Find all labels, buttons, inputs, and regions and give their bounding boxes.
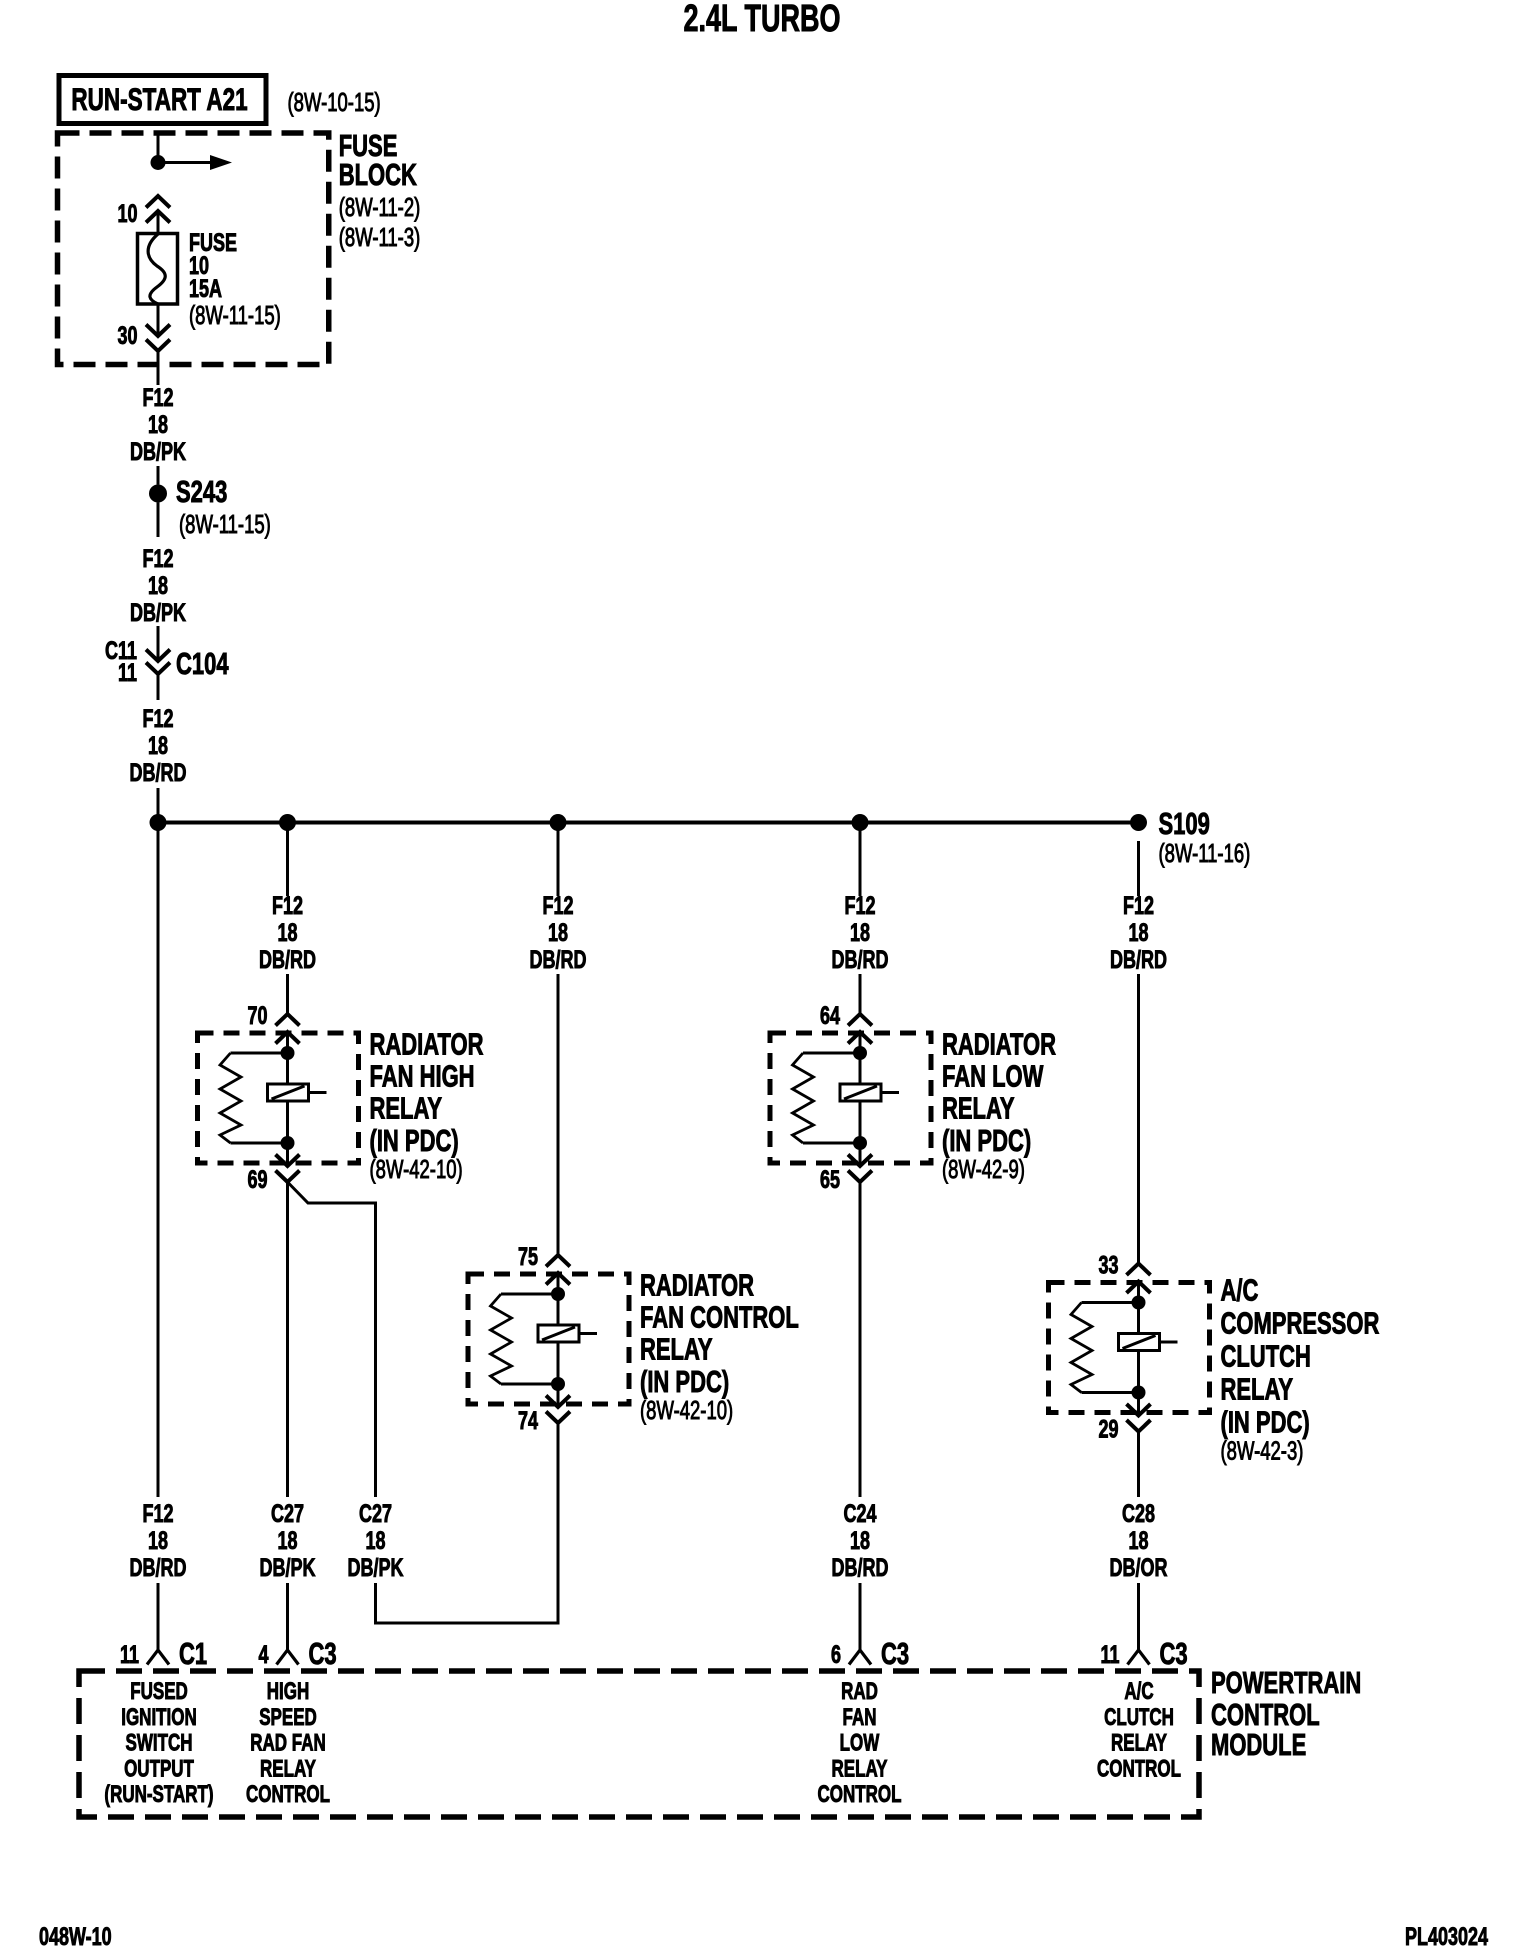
svg-text:64: 64	[820, 1001, 841, 1030]
junction	[551, 1287, 565, 1301]
wire	[1137, 841, 1140, 896]
svg-text:18: 18	[148, 731, 168, 760]
svg-text:70: 70	[247, 1001, 267, 1030]
wire C24 to PCM pin 6	[859, 1182, 862, 1497]
svg-text:SWITCH: SWITCH	[125, 1730, 192, 1756]
resistor (coil suppression)	[231, 1052, 288, 1055]
svg-text:DB/RD: DB/RD	[259, 945, 316, 974]
PCM pin 11 C1	[157, 1583, 160, 1650]
wire	[557, 823, 560, 897]
junction	[852, 814, 869, 831]
svg-text:(IN PDC): (IN PDC)	[370, 1123, 459, 1158]
svg-text:F12: F12	[143, 1499, 174, 1528]
svg-text:18: 18	[850, 1526, 870, 1555]
wire C28 to PCM pin 11	[1137, 1432, 1140, 1498]
wire splice bus S109	[158, 821, 1139, 825]
svg-text:75: 75	[518, 1242, 538, 1271]
svg-text:FUSED: FUSED	[130, 1678, 188, 1704]
svg-text:CONTROL: CONTROL	[246, 1781, 330, 1807]
svg-text:C3: C3	[1160, 1636, 1188, 1671]
svg-text:COMPRESSOR: COMPRESSOR	[1221, 1306, 1380, 1341]
relay coil	[1137, 1303, 1140, 1334]
relay K2 RADIATOR FAN CONTROL RELAY	[468, 1242, 799, 1435]
svg-text:DB/PK: DB/PK	[348, 1553, 404, 1582]
svg-text:74: 74	[518, 1406, 539, 1435]
svg-text:DB/RD: DB/RD	[130, 1553, 187, 1582]
junction	[1132, 1386, 1146, 1400]
svg-text:BLOCK: BLOCK	[339, 157, 418, 192]
svg-text:65: 65	[820, 1165, 840, 1194]
svg-text:FAN: FAN	[843, 1704, 877, 1730]
svg-text:(RUN-START): (RUN-START)	[104, 1781, 213, 1807]
wire	[157, 503, 160, 538]
svg-text:10: 10	[117, 199, 137, 228]
pin 74 connector	[557, 1384, 560, 1407]
relay coil	[557, 1294, 560, 1325]
relay boundary (dashed)	[198, 1033, 359, 1163]
connector C104 pin 11	[157, 626, 160, 661]
svg-text:POWERTRAIN: POWERTRAIN	[1211, 1665, 1361, 1700]
svg-text:DB/PK: DB/PK	[130, 437, 186, 466]
relay coil	[859, 1053, 862, 1084]
PCM pin 6 C3	[859, 1583, 862, 1650]
svg-text:(IN PDC): (IN PDC)	[640, 1364, 729, 1399]
svg-text:4: 4	[258, 1640, 269, 1669]
wire	[286, 974, 289, 1014]
svg-text:RELAY: RELAY	[1221, 1372, 1294, 1407]
wire down to splice bus	[157, 788, 160, 823]
svg-text:DB/RD: DB/RD	[832, 945, 889, 974]
svg-text:(8W-11-3): (8W-11-3)	[339, 223, 421, 252]
fuse block boundary	[58, 133, 329, 365]
svg-text:RELAY: RELAY	[942, 1091, 1015, 1126]
svg-text:33: 33	[1098, 1250, 1118, 1279]
svg-text:HIGH: HIGH	[267, 1678, 309, 1704]
wire	[859, 974, 862, 1014]
svg-text:18: 18	[148, 1526, 168, 1555]
svg-text:C28: C28	[1122, 1499, 1155, 1528]
PCM pin 4 C3	[286, 1583, 289, 1650]
wire	[1137, 974, 1140, 1263]
svg-text:PL403024: PL403024	[1405, 1922, 1489, 1951]
svg-text:30: 30	[117, 321, 137, 350]
svg-text:FAN LOW: FAN LOW	[942, 1059, 1044, 1094]
svg-text:(8W-11-15): (8W-11-15)	[179, 510, 271, 539]
svg-text:CLUTCH: CLUTCH	[1104, 1704, 1174, 1730]
junction	[279, 814, 296, 831]
svg-text:18: 18	[277, 918, 297, 947]
junction	[551, 1377, 565, 1391]
junction	[853, 1046, 867, 1060]
wire F12 to PCM pin 11 C1	[157, 823, 160, 1498]
wire	[859, 823, 862, 897]
svg-text:11: 11	[1100, 1640, 1119, 1669]
junction	[281, 1136, 295, 1150]
svg-text:18: 18	[365, 1526, 385, 1555]
relay boundary (dashed)	[468, 1274, 629, 1404]
module U1 POWERTRAIN CONTROL MODULE	[79, 1671, 1199, 1817]
svg-text:RADIATOR: RADIATOR	[942, 1027, 1056, 1062]
wire	[157, 466, 160, 485]
wire	[557, 974, 560, 1255]
svg-text:RUN-START A21: RUN-START A21	[71, 81, 247, 117]
svg-text:FAN HIGH: FAN HIGH	[370, 1059, 475, 1094]
svg-text:C27: C27	[359, 1499, 392, 1528]
svg-text:OUTPUT: OUTPUT	[124, 1756, 194, 1782]
wire from relay K2 pin 74	[557, 1423, 560, 1625]
relay K3 RADIATOR FAN LOW RELAY	[770, 1001, 1056, 1194]
resistor (coil suppression)	[501, 1293, 558, 1296]
svg-text:6: 6	[831, 1640, 841, 1669]
junction	[853, 1136, 867, 1150]
junction	[1132, 1296, 1146, 1310]
svg-text:RAD FAN: RAD FAN	[250, 1730, 326, 1756]
relay coil	[286, 1053, 289, 1084]
svg-text:(8W-42-9): (8W-42-9)	[942, 1155, 1025, 1184]
junction	[550, 814, 567, 831]
svg-text:SPEED: SPEED	[259, 1704, 317, 1730]
fuse 10 15A	[138, 234, 178, 305]
svg-text:DB/RD: DB/RD	[530, 945, 587, 974]
resistor (coil suppression)	[1082, 1301, 1139, 1304]
svg-text:11: 11	[118, 658, 137, 687]
svg-text:69: 69	[247, 1165, 267, 1194]
svg-text:F12: F12	[143, 544, 174, 573]
svg-text:18: 18	[148, 571, 168, 600]
wire	[286, 823, 289, 897]
svg-text:18: 18	[850, 918, 870, 947]
svg-text:15A: 15A	[189, 274, 222, 303]
svg-text:S109: S109	[1159, 806, 1210, 841]
node RUN-START A21 feed box	[59, 76, 266, 124]
splice S243	[149, 485, 167, 503]
svg-text:29: 29	[1098, 1414, 1118, 1443]
wire arrow to other circuits	[158, 161, 213, 164]
pin 65 connector	[859, 1143, 862, 1166]
pin 29 connector	[1137, 1393, 1140, 1416]
svg-text:RELAY: RELAY	[831, 1756, 887, 1782]
svg-text:DB/OR: DB/OR	[1110, 1553, 1168, 1582]
svg-text:DB/RD: DB/RD	[1110, 945, 1167, 974]
svg-text:C3: C3	[881, 1636, 909, 1671]
svg-text:F12: F12	[1123, 891, 1154, 920]
svg-text:(8W-42-10): (8W-42-10)	[640, 1396, 733, 1425]
svg-text:FAN CONTROL: FAN CONTROL	[640, 1300, 799, 1335]
svg-text:18: 18	[277, 1526, 297, 1555]
svg-text:18: 18	[148, 410, 168, 439]
svg-text:F12: F12	[543, 891, 574, 920]
wire branch from pin 69 to fan control relay	[288, 1182, 376, 1497]
svg-text:F12: F12	[143, 383, 174, 412]
svg-text:RAD: RAD	[841, 1678, 878, 1704]
wire F12 out of fuse block	[157, 351, 160, 385]
svg-text:F12: F12	[143, 704, 174, 733]
svg-text:DB/PK: DB/PK	[130, 598, 186, 627]
svg-text:DB/PK: DB/PK	[260, 1553, 316, 1582]
svg-text:RELAY: RELAY	[370, 1091, 443, 1126]
svg-text:CLUTCH: CLUTCH	[1221, 1339, 1311, 1374]
svg-text:18: 18	[1128, 918, 1148, 947]
svg-text:DB/RD: DB/RD	[832, 1553, 889, 1582]
svg-text:18: 18	[548, 918, 568, 947]
relay K1 RADIATOR FAN HIGH RELAY	[198, 1001, 484, 1194]
svg-text:C1: C1	[179, 1636, 207, 1671]
resistor (coil suppression)	[803, 1052, 860, 1055]
svg-text:(8W-11-2): (8W-11-2)	[339, 193, 421, 222]
svg-text:RELAY: RELAY	[1111, 1730, 1167, 1756]
junction in fuse block	[151, 155, 166, 170]
svg-text:(IN PDC): (IN PDC)	[942, 1123, 1031, 1158]
relay K4 A/C COMPRESSOR CLUTCH RELAY	[1049, 1250, 1380, 1465]
pin 30 connector	[157, 304, 160, 336]
relay boundary (dashed)	[1049, 1283, 1210, 1413]
svg-text:048W-10: 048W-10	[39, 1922, 112, 1951]
svg-text:CONTROL: CONTROL	[1097, 1756, 1181, 1782]
svg-text:C104: C104	[176, 646, 229, 681]
svg-text:S243: S243	[176, 474, 227, 509]
wire feed into fuse block	[157, 133, 160, 163]
svg-text:IGNITION: IGNITION	[121, 1704, 197, 1730]
svg-text:(8W-42-10): (8W-42-10)	[370, 1155, 463, 1184]
svg-text:(8W-11-15): (8W-11-15)	[189, 301, 281, 330]
wire C27 to PCM pin 4	[286, 1182, 289, 1497]
svg-text:DB/RD: DB/RD	[130, 758, 187, 787]
relay boundary (dashed)	[770, 1033, 931, 1163]
svg-text:RADIATOR: RADIATOR	[640, 1268, 754, 1303]
splice S109	[1130, 814, 1147, 831]
svg-text:C3: C3	[309, 1636, 337, 1671]
PCM pin 11 C3	[1137, 1583, 1140, 1650]
svg-text:LOW: LOW	[840, 1730, 880, 1756]
wire to fan control relay pin 74	[374, 1622, 558, 1625]
svg-text:CONTROL: CONTROL	[817, 1781, 901, 1807]
svg-text:C27: C27	[271, 1499, 304, 1528]
svg-text:18: 18	[1128, 1526, 1148, 1555]
junction	[281, 1046, 295, 1060]
svg-text:RADIATOR: RADIATOR	[370, 1027, 484, 1062]
svg-text:2.4L TURBO: 2.4L TURBO	[684, 0, 841, 39]
svg-text:(8W-11-16): (8W-11-16)	[1159, 839, 1251, 868]
svg-text:11: 11	[120, 1640, 139, 1669]
pin 69 connector	[286, 1143, 289, 1166]
svg-text:F12: F12	[845, 891, 876, 920]
svg-text:F12: F12	[272, 891, 303, 920]
svg-text:RELAY: RELAY	[260, 1756, 316, 1782]
svg-text:A/C: A/C	[1221, 1273, 1259, 1308]
svg-text:MODULE: MODULE	[1211, 1727, 1306, 1762]
svg-text:(8W-10-15): (8W-10-15)	[288, 88, 381, 117]
svg-text:(8W-42-3): (8W-42-3)	[1221, 1436, 1304, 1465]
svg-text:C24: C24	[844, 1499, 878, 1528]
junction	[150, 814, 167, 831]
wire	[374, 1583, 377, 1625]
svg-text:A/C: A/C	[1124, 1678, 1153, 1704]
svg-text:(IN PDC): (IN PDC)	[1221, 1405, 1310, 1440]
svg-text:RELAY: RELAY	[640, 1332, 713, 1367]
